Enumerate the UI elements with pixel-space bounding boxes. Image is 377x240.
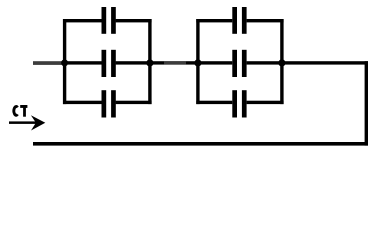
- wire: series link bank 1 to bank 2: [150, 61, 198, 64]
- wire: bank 1 top branch right segment: [116, 19, 152, 22]
- current arrow shaft: [9, 121, 37, 124]
- wire: bank 1 middle branch left segment: [63, 61, 102, 64]
- node A: junction dot bank 1 left: [61, 59, 68, 66]
- wire: bank 2 left rail: [196, 19, 199, 104]
- node B: junction dot bank 1 right: [146, 59, 153, 66]
- wire: bank 1 middle branch right segment: [116, 61, 152, 64]
- node D: junction dot bank 2 right: [278, 59, 285, 66]
- wire: bank 2 bottom branch left segment: [196, 101, 232, 104]
- wire: bank 1 top branch left segment: [63, 19, 102, 22]
- wire: bottom return run: [33, 142, 368, 146]
- wire: right side vertical drop: [365, 61, 368, 145]
- wire: bank 1 bottom branch right segment: [116, 101, 152, 104]
- capacitor C6 (bank 2 bottom): [232, 90, 246, 117]
- capacitor C2 (bank 1 middle): [102, 50, 116, 77]
- wire: bank 2 middle branch left segment: [196, 61, 232, 64]
- wire: bank 1 bottom branch left segment: [63, 101, 102, 104]
- node C: junction dot bank 2 left: [194, 59, 201, 66]
- wire: bank 2 bottom branch right segment: [247, 101, 284, 104]
- capacitor C5 (bank 2 middle): [232, 50, 246, 77]
- current arrow head: [31, 115, 45, 130]
- wire: left input stub to node A (gray): [33, 61, 65, 65]
- wire: bank 2 middle branch right segment: [247, 61, 284, 64]
- wire: bank 1 right rail: [148, 19, 151, 104]
- wire: bank 1 left rail: [63, 19, 66, 104]
- label CT (current annotation): [14, 105, 27, 117]
- capacitor C4 (bank 2 top): [232, 7, 246, 34]
- capacitor C1 (bank 1 top): [102, 7, 116, 34]
- wire: series link gray middle portion: [164, 61, 186, 64]
- wire: bank 2 top branch right segment: [247, 19, 284, 22]
- wire: bank 2 right rail: [280, 19, 283, 104]
- capacitor C3 (bank 1 bottom): [102, 90, 116, 117]
- wire: bank 2 top branch left segment: [196, 19, 232, 22]
- wire: bank 2 output run to right corner: [282, 61, 368, 64]
